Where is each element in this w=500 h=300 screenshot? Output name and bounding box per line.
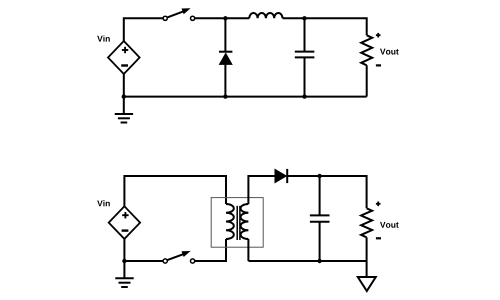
label Vout bottom circuit <box>380 222 399 228</box>
capacitor C1 <box>295 18 315 96</box>
resistor R2 (load) <box>361 208 372 237</box>
node: capacitor bottom junction dot bottom circuit <box>317 259 321 263</box>
ground (earth) top circuit <box>115 97 133 123</box>
node: ground rail / source junction dot <box>122 94 126 98</box>
label + at load top bottom circuit <box>376 202 381 207</box>
wire: bottom rail <box>124 96 367 98</box>
label Vin <box>97 35 110 41</box>
source Vin (diamond) <box>108 41 140 74</box>
label + inside Vin diamond <box>122 47 128 53</box>
node: Vin2 / ground junction dot <box>122 259 126 263</box>
node: output node junction dot <box>302 16 306 20</box>
node: output node junction dot bottom circuit <box>317 174 321 178</box>
label - at load bottom bottom circuit <box>376 237 381 239</box>
label - inside Vin2 diamond <box>122 229 129 231</box>
wire: rail to switch S2 <box>124 260 163 262</box>
wire: resistor to ground triangle <box>366 237 368 277</box>
wire: Vin2 top to transformer primary <box>124 176 226 207</box>
label + at load top <box>376 33 381 38</box>
node: capacitor bottom junction dot <box>302 94 306 98</box>
wire: secondary top to diode D2 anode <box>248 176 275 204</box>
switch S2 <box>163 251 195 263</box>
wire: Vin bottom to rail <box>123 74 125 97</box>
diode D1 (freewheeling) <box>219 18 232 96</box>
wire: secondary bottom rail <box>248 260 366 262</box>
diode D2 (output rectifier) <box>275 169 287 183</box>
wire: Vin2 bottom to rail <box>123 239 125 261</box>
wire: switch to primary bottom <box>195 239 226 261</box>
wire: resistor to bottom rail <box>366 65 368 96</box>
transformer T1 box <box>211 198 263 248</box>
ground (earth) bottom-left <box>115 261 133 287</box>
label + inside Vin2 diamond <box>122 212 128 218</box>
node: switch node junction dot <box>223 16 227 20</box>
source Vin2 (diamond) <box>109 206 140 239</box>
inductor L1 <box>249 13 282 18</box>
wire: diode to top-right corner, down to load <box>287 176 366 208</box>
switch S1 <box>163 8 195 20</box>
label Vin bottom circuit <box>97 200 110 206</box>
wire: secondary bottom down to rail <box>247 239 249 261</box>
label - inside Vin diamond <box>121 64 128 66</box>
transformer T1 secondary winding <box>241 204 249 239</box>
capacitor C2 <box>310 176 330 261</box>
transformer T1 core <box>237 206 240 240</box>
label Vout top circuit <box>380 49 399 55</box>
wire: inductor to top-right corner, down to load <box>283 18 367 35</box>
ground (chassis triangle) bottom-right <box>358 277 376 291</box>
resistor R1 (load) <box>361 35 372 65</box>
transformer T1 primary winding <box>226 204 234 239</box>
wire top-left: Vin top to switch <box>124 18 163 41</box>
node: diode bottom junction dot <box>223 94 227 98</box>
label - at load bottom <box>376 64 381 66</box>
wire: switch to inductor <box>195 17 250 19</box>
